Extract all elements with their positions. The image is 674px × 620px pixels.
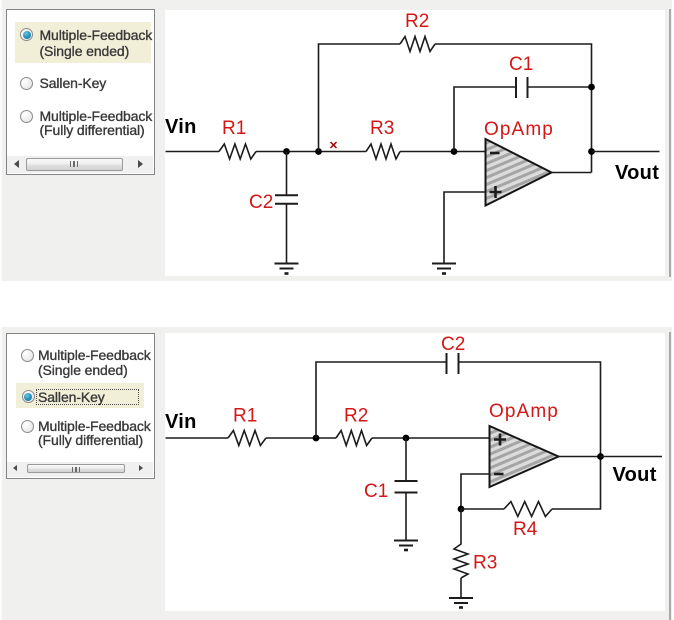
wire R2 riser bbox=[319, 44, 401, 152]
resistor R1 bbox=[219, 144, 256, 159]
wire C2 to ground bbox=[286, 204, 288, 263]
node I output junction dot bbox=[597, 453, 604, 460]
resistor R3 bbox=[366, 144, 400, 159]
svg-text:R3: R3 bbox=[370, 118, 394, 139]
node G junction dot bbox=[403, 435, 410, 442]
node H junction dot bbox=[458, 506, 465, 513]
node C junction dot (inverting input) bbox=[451, 148, 458, 155]
wire C2 to output branch (bottom) bbox=[459, 362, 601, 457]
wire R3 to op-amp bbox=[400, 151, 486, 153]
ground under C1 (bottom) bbox=[394, 541, 418, 546]
svg-text:C1: C1 bbox=[509, 54, 533, 75]
resistor R3 (bottom vertical) bbox=[454, 509, 468, 578]
op-amp U1 bbox=[486, 139, 552, 206]
svg-text:R1: R1 bbox=[222, 118, 246, 139]
wire C2 riser (bottom) bbox=[316, 362, 446, 438]
svg-text:R1: R1 bbox=[233, 406, 257, 427]
svg-text:Vout: Vout bbox=[615, 162, 659, 184]
svg-text:R4: R4 bbox=[513, 519, 538, 540]
wire non-inverting input to ground bbox=[444, 192, 486, 263]
wire R1 to R2 (bottom) bbox=[266, 437, 336, 439]
wire to Vout bbox=[592, 151, 660, 153]
top section gray background bbox=[0, 0, 672, 281]
top white circuit panel bbox=[165, 10, 665, 276]
wire R4 to output branch bbox=[552, 457, 601, 510]
svg-text:C2: C2 bbox=[441, 334, 465, 355]
capacitor C1 plates (bottom) bbox=[395, 481, 418, 493]
ground under R3 bbox=[449, 598, 473, 603]
svg-text:R3: R3 bbox=[473, 553, 497, 574]
capacitor C2 plates bbox=[275, 195, 298, 204]
wire to Vout (bottom) bbox=[601, 456, 663, 458]
ground under op-amp bbox=[432, 264, 456, 269]
wire R1 to R3 bbox=[256, 151, 366, 153]
svg-text:Vin: Vin bbox=[165, 116, 197, 138]
horizontal scrollbar bbox=[7, 462, 153, 477]
wire R2 to op-amp (bottom) bbox=[372, 437, 490, 439]
svg-text:C2: C2 bbox=[249, 192, 273, 213]
op-amp U2 non-inverting pin mark bbox=[494, 434, 506, 446]
node E output junction dot bbox=[588, 148, 595, 155]
wire C1 branch left riser bbox=[454, 87, 515, 152]
bottom section gray background bbox=[0, 327, 672, 620]
wire C1 to ground (bottom) bbox=[405, 493, 407, 541]
wire R2 to output branch bbox=[435, 44, 592, 173]
top section right window border bbox=[669, 9, 672, 277]
wire node to R4 bbox=[461, 508, 504, 510]
wire C1 to output branch bbox=[528, 86, 592, 88]
capacitor C1 wire (bottom) bbox=[405, 438, 407, 481]
wire Vin input (bottom) bbox=[166, 437, 229, 439]
node marker red x bbox=[331, 142, 337, 148]
wire inverting input feedback (bottom) bbox=[461, 474, 490, 509]
resistor R1 (bottom) bbox=[228, 431, 266, 446]
op-amp U2 inverting pin mark bbox=[494, 473, 504, 476]
capacitor C1 plates bbox=[516, 77, 528, 98]
op-amp U2 bbox=[490, 426, 559, 487]
node D junction dot (C1/output branch) bbox=[588, 84, 595, 91]
svg-text:Vin: Vin bbox=[165, 411, 197, 433]
bottom section right window border bbox=[669, 332, 672, 620]
resistor R2 (bottom) bbox=[336, 431, 372, 446]
node B junction dot bbox=[315, 148, 322, 155]
wire op-amp output (bottom) bbox=[559, 456, 601, 458]
wire R3 to ground bbox=[460, 578, 462, 598]
wire Vin input bbox=[166, 151, 220, 153]
resistor R4 bbox=[504, 502, 552, 517]
node A junction dot bbox=[283, 148, 290, 155]
node F junction dot bbox=[313, 435, 320, 442]
gap bbox=[0, 281, 674, 327]
op-amp U1 inverting pin mark bbox=[490, 152, 500, 155]
svg-text:R2: R2 bbox=[344, 406, 368, 427]
op-amp U1 non-inverting pin mark bbox=[490, 186, 502, 198]
wire op-amp output bbox=[552, 172, 592, 174]
capacitor C2 vertical wire upper bbox=[286, 152, 288, 196]
svg-text:OpAmp: OpAmp bbox=[484, 119, 554, 140]
svg-text:C1: C1 bbox=[364, 481, 388, 502]
ground under C2 bbox=[275, 264, 299, 269]
svg-text:OpAmp: OpAmp bbox=[489, 401, 559, 422]
horizontal scrollbar bbox=[7, 156, 153, 173]
capacitor C2 plates (bottom) bbox=[447, 353, 459, 374]
resistor R2 bbox=[400, 37, 435, 52]
svg-text:Vout: Vout bbox=[613, 464, 657, 486]
svg-text:R2: R2 bbox=[405, 11, 429, 32]
bottom white circuit panel bbox=[165, 333, 665, 611]
